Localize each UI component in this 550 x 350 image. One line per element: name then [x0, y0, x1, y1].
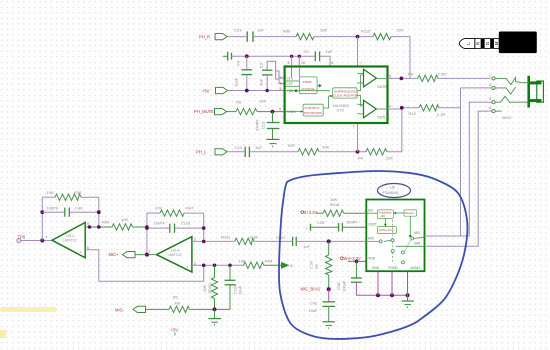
capacitor C4 labels	[234, 60, 241, 87]
svg-text:GND: GND	[372, 266, 380, 270]
wire MIC_BIAS down	[328, 289, 330, 302]
svg-text:5: 5	[389, 74, 391, 78]
wire stub pin3 top	[291, 56, 293, 66]
jack switch blade pin1	[495, 78, 515, 85]
wire C26 to CEXT pin	[342, 226, 366, 228]
U5 bottom pin names	[372, 266, 420, 270]
ground below C42	[323, 306, 336, 328]
svg-text:PH_R: PH_R	[199, 34, 210, 39]
ground below C13	[267, 129, 280, 148]
capacitor C24 label	[235, 145, 243, 150]
op-amp U3-A	[157, 237, 192, 273]
capacitor C42	[323, 302, 336, 307]
wire riser pin4 net	[426, 111, 492, 246]
wire cap row y56	[232, 55, 315, 57]
svg-text:13uF: 13uF	[238, 285, 243, 295]
svg-text:L: L	[466, 42, 471, 45]
svg-text:R9: R9	[175, 300, 181, 305]
U5 active timing block	[377, 227, 396, 234]
svg-text:Detect: Detect	[405, 211, 414, 215]
wire OUTR row	[388, 77, 418, 79]
op-amp U7 MAX9820 box	[285, 67, 388, 124]
svg-text:MAX9820: MAX9820	[333, 104, 350, 108]
label FSA8049	[383, 191, 399, 195]
svg-text:1uF: 1uF	[303, 244, 310, 249]
capacitor C103 label 100PF	[154, 220, 166, 225]
wire feedback right riser	[98, 197, 100, 227]
svg-text:MIC_BIAS: MIC_BIAS	[301, 286, 321, 291]
wire riser pin2 net	[426, 88, 461, 236]
junction MIC- node	[213, 307, 217, 311]
svg-text:10uF: 10uF	[234, 77, 239, 87]
label U5	[390, 186, 395, 190]
svg-text:2.2K: 2.2K	[250, 235, 259, 240]
wire riser pin3 net	[426, 102, 492, 236]
resistor R94 label	[265, 259, 273, 264]
wire U3-A pin2 stub	[192, 240, 235, 242]
svg-text:2.2R: 2.2R	[438, 71, 447, 76]
resistor R12 2.2R	[419, 105, 439, 111]
junction U3-C output	[40, 239, 44, 243]
wire MIC net to FSA	[296, 240, 379, 242]
port MIC- label	[115, 307, 125, 312]
port PH_MUTE	[215, 109, 227, 115]
svg-text:5: 5	[291, 264, 293, 268]
ground below MIC- node	[209, 309, 222, 325]
svg-text:R118: R118	[330, 202, 340, 207]
junction riser R24	[145, 225, 149, 229]
capacitor C6	[315, 52, 319, 62]
svg-text:.C103: .C103	[180, 220, 191, 225]
resistor R100 vertical	[211, 265, 217, 309]
wire jack pin2 to riser	[461, 87, 493, 89]
MAX9820 top pin numbers	[288, 61, 363, 66]
wire PGND stub	[391, 271, 393, 295]
port +5V	[216, 87, 228, 93]
capacitor C107 value 1uF	[303, 244, 310, 249]
svg-text:PH_MUTE: PH_MUTE	[194, 109, 214, 114]
resistor R95	[169, 306, 190, 312]
junction OUTL	[400, 106, 404, 110]
testpoint TP6 label	[18, 235, 26, 240]
svg-text:R47: R47	[186, 206, 194, 211]
resistor R2 2.2K labels rotated	[309, 260, 320, 269]
jack pin4 stub	[495, 110, 501, 112]
svg-text:R94: R94	[265, 259, 273, 264]
capacitor C42 labels	[309, 301, 319, 313]
wire R8 to SHDN pin	[257, 111, 285, 113]
resistor R4 value 22K	[386, 155, 393, 160]
resistor R97	[298, 149, 319, 155]
svg-text:7: 7	[353, 125, 355, 129]
junction pin3 b	[213, 264, 217, 268]
control shutdown block	[303, 104, 323, 116]
wire node down to MAX9820 pin top	[357, 37, 359, 67]
svg-text:1uF: 1uF	[255, 145, 262, 150]
wire PH_R to C23	[227, 36, 246, 38]
capacitor C13 labels 220PF	[255, 119, 266, 131]
svg-text:10K: 10K	[47, 190, 54, 195]
svg-text:R115: R115	[361, 29, 371, 34]
svg-text:1: 1	[489, 73, 491, 77]
wire feedback right riser U3-A	[203, 213, 205, 241]
svg-text:C24: C24	[235, 145, 243, 150]
junction C103 right	[202, 226, 206, 230]
junction right riser cap	[97, 210, 101, 214]
suppression to amps wires	[357, 75, 363, 106]
annotation blue freehand loop	[279, 171, 467, 339]
switch contacts circles	[391, 237, 414, 264]
junction C4 bottom	[245, 89, 249, 93]
junction bus PGND	[390, 293, 394, 297]
resistor R118 label	[330, 202, 340, 207]
U3-C input pin marks	[80, 222, 90, 255]
wire feedback riser U3-C	[41, 197, 43, 240]
resistor R101 label	[221, 235, 231, 240]
resistor R94	[243, 262, 263, 268]
jack switch blade pin3	[495, 96, 522, 102]
svg-text:220PF: 220PF	[255, 119, 260, 131]
power +5V tick	[174, 333, 176, 336]
wire C25 row	[311, 226, 339, 228]
svg-text:C23: C23	[234, 27, 242, 32]
svg-text:R24: R24	[102, 219, 110, 224]
yellow corner mark	[0, 330, 6, 338]
power flag +3.3V VDD	[341, 256, 362, 261]
wire R4 to OUTL corner	[387, 108, 402, 152]
resistor R96	[296, 33, 314, 39]
svg-text:pfd: pfd	[381, 214, 386, 218]
capacitor C26	[339, 223, 343, 232]
arrow control to suppression	[323, 95, 333, 108]
svg-text:LMV722: LMV722	[63, 239, 77, 243]
wire +3.3V to R118	[316, 212, 323, 214]
junction MIC_BIAS	[327, 287, 331, 291]
svg-text:G/M: G/M	[414, 242, 420, 246]
jack pin circles	[492, 77, 495, 113]
svg-text:1uF: 1uF	[326, 49, 333, 54]
wire R115 to corner	[391, 37, 410, 79]
svg-text:G: G	[485, 41, 490, 45]
svg-text:M/G: M/G	[414, 231, 421, 235]
resistor R24 value 10K	[121, 217, 128, 222]
jack pin numbers	[489, 73, 491, 110]
svg-text:C38: C38	[336, 282, 341, 290]
svg-text:PH_L: PH_L	[196, 150, 207, 155]
port PH_R	[215, 34, 227, 40]
capacitor C104 labels rotated	[233, 284, 243, 295]
resistor R6 2.2R	[418, 75, 438, 81]
port PH_L label	[196, 150, 207, 155]
svg-text:100PF: 100PF	[346, 220, 358, 225]
svg-text:AGND: AGND	[411, 266, 421, 270]
internal +VD rail with dot	[285, 85, 330, 92]
svg-text:C1P: C1P	[287, 82, 293, 86]
svg-text:R6: R6	[408, 71, 414, 76]
internal wires to pump	[285, 67, 300, 87]
svg-text:2.2R: 2.2R	[437, 112, 446, 117]
wire R95 to node	[190, 308, 231, 310]
junction node R feedback	[356, 35, 360, 39]
arrow holdback to timing	[384, 218, 387, 226]
svg-text:10K: 10K	[259, 98, 266, 103]
MAX9820 left pin numbers	[280, 76, 282, 91]
junction feedback mid	[40, 210, 44, 214]
MAX9820 left pin names	[287, 76, 297, 114]
svg-text:C13: C13	[261, 121, 266, 129]
capacitor C4	[242, 56, 253, 90]
wire SHDN into control	[285, 110, 304, 112]
ground bus wire	[356, 294, 407, 296]
charge pump block	[299, 77, 317, 94]
jack designator label	[502, 116, 512, 120]
svg-text:W4+3.3V: W4+3.3V	[344, 256, 362, 261]
wire C24 to R97	[249, 151, 298, 153]
junction minus stub b	[97, 225, 101, 229]
U5 right pin names	[414, 231, 421, 246]
wire U3-C plus stub and long route	[85, 250, 204, 282]
wire R96 to node	[314, 36, 373, 38]
svg-text:2: 2	[280, 76, 282, 80]
capacitor C6 value 1uF	[326, 49, 333, 54]
testpoint TP6 pad	[17, 239, 21, 243]
wire M/G out	[425, 235, 427, 237]
svg-text:R2: R2	[314, 263, 319, 269]
svg-text:22K: 22K	[397, 28, 404, 33]
wire U3-C minus stub	[85, 226, 112, 228]
resistor R24 label	[102, 219, 110, 224]
svg-text:MIC-: MIC-	[115, 307, 125, 312]
resistor R96 label	[283, 29, 291, 34]
capacitor C24 value 1uF	[255, 145, 262, 150]
junction C3 bottom	[266, 89, 269, 92]
resistor R2 vertical 2.2K	[326, 241, 332, 289]
svg-text:M: M	[494, 41, 499, 45]
svg-text:4: 4	[389, 105, 391, 109]
wire AGND stub	[407, 271, 409, 295]
junction bus AGND	[406, 293, 410, 297]
junction C103 left	[145, 226, 149, 230]
capacitor C103	[147, 224, 204, 233]
label MAX9820	[333, 104, 350, 108]
svg-text:CONTROL: CONTROL	[304, 106, 319, 110]
wire R94 to net arrow	[264, 264, 281, 266]
svg-text:R8: R8	[236, 99, 242, 104]
junction MIC bias tap	[327, 239, 331, 243]
port MIC+	[123, 252, 136, 258]
net MIC_BIAS label	[301, 286, 321, 291]
capacitor C5 small left cap	[223, 52, 232, 61]
U3-A pin marks	[149, 237, 197, 269]
svg-text:+: +	[186, 265, 188, 269]
resistor R100 labels rotated	[202, 283, 212, 293]
capacitor C25 label	[317, 220, 325, 225]
internal amp OUTL label	[378, 116, 387, 120]
resistor R4 22K	[366, 149, 387, 155]
svg-text:22K: 22K	[386, 155, 393, 160]
resistor R115 value 22K	[397, 28, 404, 33]
svg-text:LMV722: LMV722	[168, 253, 182, 257]
svg-text:PUMP: PUMP	[303, 80, 312, 84]
wire riser mid column	[146, 213, 148, 255]
wire MIC+ to U3-A	[135, 254, 157, 256]
svg-text:1uF: 1uF	[257, 27, 264, 32]
resistor R101	[235, 238, 254, 244]
junction OUTR	[400, 77, 404, 81]
svg-text:FSA8049: FSA8049	[383, 191, 399, 195]
annotation ellipse around U5	[378, 184, 411, 198]
resistor R8	[236, 108, 257, 114]
capacitor C25 plus plate	[306, 224, 311, 231]
wire TP6 to U3-C output	[21, 240, 52, 242]
op-amp U3-C designator	[63, 234, 77, 243]
svg-text:C107: C107	[276, 235, 286, 240]
svg-text:4: 4	[489, 106, 491, 110]
capacitor C48 label	[74, 206, 83, 211]
svg-text:7: 7	[46, 235, 48, 239]
capacitor C23 value 1uF	[257, 27, 264, 32]
wire R97 to node7	[319, 151, 366, 153]
svg-text:R101: R101	[221, 235, 231, 240]
junction pin3 a	[202, 264, 206, 268]
junction pin3 c	[228, 264, 232, 268]
wire R101 to C107 (MIC net)	[254, 240, 292, 242]
capacitor C48 label 100PF	[47, 206, 59, 211]
net arrow tiny label	[291, 264, 293, 268]
junction MIC+ node	[145, 253, 149, 257]
svg-text:OUTR: OUTR	[378, 85, 388, 89]
svg-text:8: 8	[280, 87, 282, 91]
capacitor C6 label	[304, 49, 310, 54]
resistor R4 label	[358, 155, 364, 160]
svg-text:R4: R4	[358, 155, 364, 160]
port +5V label	[202, 89, 210, 94]
wire C6 to pin stub	[320, 56, 331, 66]
port PH_R label	[199, 34, 210, 39]
junction SHDN node	[271, 110, 275, 114]
svg-text:CLICK-AND-POP: CLICK-AND-POP	[333, 94, 357, 98]
port PH_MUTE label	[194, 109, 214, 114]
junction pin2	[202, 240, 206, 244]
svg-text:+5V: +5V	[202, 89, 210, 94]
svg-text:PGND: PGND	[389, 266, 399, 270]
capacitor C38 vertical	[351, 261, 362, 295]
resistor R12 value 2.2R	[437, 112, 446, 117]
wire R12 to riser	[439, 107, 461, 109]
internal amp OUTR label	[378, 85, 388, 89]
svg-text:R96: R96	[283, 29, 291, 34]
resistor R47	[147, 210, 204, 216]
svg-text:C4: C4	[236, 60, 241, 66]
svg-text:10: 10	[301, 61, 305, 65]
svg-text:-: -	[80, 226, 81, 230]
wire MIC into switch	[366, 240, 382, 243]
wire OUTL row	[388, 108, 420, 109]
wire stub pin10 top	[298, 56, 300, 66]
yellow highlight streak	[0, 307, 57, 312]
svg-text:1: 1	[280, 82, 282, 86]
svg-text:2: 2	[489, 83, 491, 87]
svg-text:MIC: MIC	[368, 237, 375, 241]
ground below bus	[402, 295, 415, 308]
svg-text:C42: C42	[310, 301, 318, 306]
wire R118 to EN pin	[344, 212, 367, 214]
pin number 9 SHDN	[279, 107, 281, 111]
wire U3-A pin3 stub	[192, 264, 244, 266]
svg-text:OUTL: OUTL	[378, 116, 387, 120]
op-amp U3-A designator	[168, 249, 182, 258]
capacitor C3 with staircase wire to pins	[262, 61, 285, 90]
capacitor C48	[42, 208, 99, 217]
wire EN inside	[366, 212, 377, 214]
svg-text:100PF: 100PF	[154, 220, 166, 225]
resistor R8 label	[236, 99, 242, 104]
resistor R6 label	[408, 71, 414, 76]
svg-text:2: 2	[194, 237, 196, 241]
svg-text:05: 05	[173, 294, 178, 299]
switch links	[384, 237, 425, 252]
resistor R12 label	[409, 111, 417, 116]
wire node up to MAX9820 pin 7	[357, 123, 359, 152]
wire R6 to jack pin1	[438, 77, 490, 79]
resistor R101 value 2.2K	[250, 235, 259, 240]
wire detector riser	[409, 216, 411, 237]
suppression click-and-pop block	[333, 88, 358, 98]
wire +5V row	[228, 90, 285, 92]
resistor R38	[42, 194, 99, 200]
svg-text:3: 3	[489, 97, 491, 101]
svg-text:C1N: C1N	[287, 76, 294, 80]
MAX9820 right pin numbers	[389, 74, 391, 108]
svg-text:JACK: JACK	[502, 116, 512, 120]
resistor R115 label	[361, 29, 371, 34]
resistor R118 value 10K	[330, 197, 337, 202]
svg-text:+5V: +5V	[171, 327, 179, 332]
capacitor C103 label	[180, 220, 191, 225]
svg-text:R97: R97	[288, 143, 296, 148]
svg-text:C3: C3	[259, 62, 264, 68]
jack connector J body	[516, 76, 544, 108]
capacitor C26 value 100PF	[346, 220, 358, 225]
U5 left pin names	[368, 208, 377, 260]
resistor R95 labels	[173, 294, 181, 305]
svg-text:+: +	[80, 251, 82, 255]
wire C3 stair to pin2	[276, 71, 285, 78]
port PH_L	[215, 149, 227, 155]
junction bus GND	[376, 293, 380, 297]
svg-text:C6: C6	[304, 49, 310, 54]
resistor R118	[323, 210, 344, 216]
resistor R47 label 47K	[155, 206, 162, 211]
resistor R38 label 10K	[47, 190, 54, 195]
resistor R96 value 10K	[320, 28, 327, 33]
arrow detector to holdback	[393, 212, 404, 215]
svg-text:100uF: 100uF	[342, 280, 347, 292]
svg-text:.C48: .C48	[74, 206, 83, 211]
svg-text:1: 1	[149, 250, 151, 254]
resistor R8 value 10K	[259, 98, 266, 103]
capacitor C104 vertical	[225, 265, 236, 309]
svg-text:U5: U5	[390, 186, 395, 190]
wire +3.3V to VDD pin	[348, 260, 366, 262]
internal amp triangle L	[357, 100, 387, 118]
svg-text:U3-A: U3-A	[171, 249, 180, 253]
power flag +3.3V EN label	[301, 210, 318, 215]
capacitor C38 labels rotated	[336, 280, 347, 292]
headphone plug clipart	[459, 32, 537, 54]
port MIC-	[133, 306, 146, 312]
resistor R24	[112, 224, 133, 230]
